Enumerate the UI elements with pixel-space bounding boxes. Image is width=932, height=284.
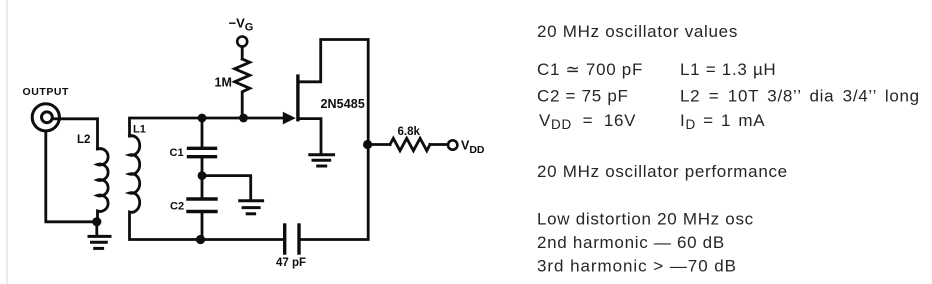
svg-text:L1 = 1.3 µH: L1 = 1.3 µH <box>680 60 776 79</box>
svg-text:1M: 1M <box>215 76 232 90</box>
svg-text:20 MHz oscillator performance: 20 MHz oscillator performance <box>537 162 788 181</box>
svg-text:L1: L1 <box>133 124 146 136</box>
svg-text:ID = 1 mA: ID = 1 mA <box>680 111 765 132</box>
svg-text:L2: L2 <box>77 134 90 146</box>
svg-text:C1: C1 <box>170 147 184 159</box>
svg-text:−VG: −VG <box>229 16 254 34</box>
svg-text:VDD: VDD <box>461 139 485 157</box>
svg-text:2N5485: 2N5485 <box>321 97 365 111</box>
svg-text:C2 = 75 pF: C2 = 75 pF <box>537 87 629 106</box>
svg-text:2nd harmonic — 60 dB: 2nd harmonic — 60 dB <box>537 233 725 252</box>
svg-text:OUTPUT: OUTPUT <box>23 86 69 98</box>
svg-text:3rd harmonic > —70 dB: 3rd harmonic > —70 dB <box>537 257 737 276</box>
svg-text:VDD = 16V: VDD = 16V <box>539 111 636 132</box>
svg-text:20 MHz oscillator values: 20 MHz oscillator values <box>537 22 738 41</box>
svg-text:6.8k: 6.8k <box>398 126 421 138</box>
svg-text:47 pF: 47 pF <box>276 257 306 269</box>
svg-text:L2 = 10T 3/8’’ dia 3/4’’ long: L2 = 10T 3/8’’ dia 3/4’’ long <box>680 87 920 106</box>
svg-text:C1 ≃ 700 pF: C1 ≃ 700 pF <box>537 60 643 79</box>
svg-text:Low distortion 20 MHz osc: Low distortion 20 MHz osc <box>537 210 754 229</box>
svg-text:C2: C2 <box>170 201 184 213</box>
